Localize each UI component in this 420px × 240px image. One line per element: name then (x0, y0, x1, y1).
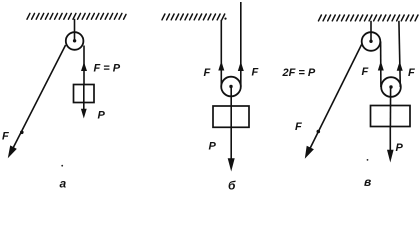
force arrow F right (diagram b) (238, 62, 244, 72)
pulley axle dot (diagram a) (73, 39, 76, 42)
rope grip dot (diagram v) (317, 130, 321, 134)
force arrow F (rope end, diagram v) (305, 146, 314, 159)
speck near caption a (61, 165, 63, 167)
link wire from pulley to block (diagram b) (230, 87, 232, 128)
svg-text:F: F (295, 121, 302, 133)
svg-text:P: P (98, 110, 106, 122)
weight block (diagram b) (213, 106, 249, 127)
link wire from pulley to block (diagram v) (389, 87, 391, 127)
wire: left rope of diagram a (11, 45, 66, 153)
pulley axle dot (diagram b) (229, 85, 232, 88)
ceiling hatching (diagram a) (27, 13, 126, 19)
pulley U4 (movable pulley, diagram v) (381, 77, 401, 97)
weight force arrow P (diagram b) (230, 127, 232, 161)
pulley hanger wire (diagram a) (74, 19, 76, 41)
svg-text:а: а (60, 177, 67, 191)
wire: right rope to ceiling (diagram v) (399, 21, 400, 87)
svg-text:в: в (364, 175, 371, 189)
svg-text:P: P (209, 141, 217, 153)
pulley axle dot (diagram v, movable) (389, 85, 392, 88)
pulley U1 (fixed pulley, diagram a) (66, 32, 84, 50)
force arrow F (rope end, diagram a) (8, 145, 17, 158)
svg-text:2F = P: 2F = P (282, 67, 316, 79)
wire: left rope of diagram b (from ceiling to pulley) (220, 20, 222, 87)
weight block (diagram a) (74, 85, 95, 103)
pulley hanger wire (diagram v) (370, 21, 372, 42)
pulley axle dot (diagram v, fixed) (369, 40, 372, 43)
force arrow F left (diagram v) (378, 61, 384, 71)
wire: pulled rope of diagram v (308, 45, 362, 153)
svg-text:F: F (204, 67, 211, 79)
svg-text:P: P (396, 142, 404, 154)
svg-text:F: F (2, 131, 9, 143)
speck left of P arrow (diagram v) (367, 159, 369, 161)
svg-text:F = P: F = P (94, 63, 121, 75)
pulley U2 (movable pulley, diagram b) (221, 77, 241, 97)
svg-text:F: F (362, 66, 369, 78)
wire: rope between pulleys (diagram v) (380, 42, 382, 88)
svg-text:б: б (228, 179, 236, 192)
ceiling hatching (diagram v) (319, 15, 419, 21)
ceiling hatching (diagram b) (162, 14, 227, 20)
force arrow F=P on rope (diagram a) (81, 62, 87, 71)
weight force arrow P (diagram a) (83, 85, 85, 111)
pulley U3 (fixed pulley, diagram v) (362, 32, 381, 51)
force arrow F right (diagram v) (397, 61, 403, 71)
wire: right rope of diagram a (83, 46, 85, 86)
wire: right rope of diagram b (from above frame to pulley) (240, 2, 242, 87)
weight force arrow P (diagram v) (389, 127, 391, 154)
weight block (diagram v) (371, 106, 411, 127)
force arrow F left (diagram b) (218, 61, 224, 71)
svg-text:F: F (252, 67, 259, 79)
svg-text:F: F (408, 67, 415, 79)
rope grip dot (diagram a) (20, 131, 24, 135)
